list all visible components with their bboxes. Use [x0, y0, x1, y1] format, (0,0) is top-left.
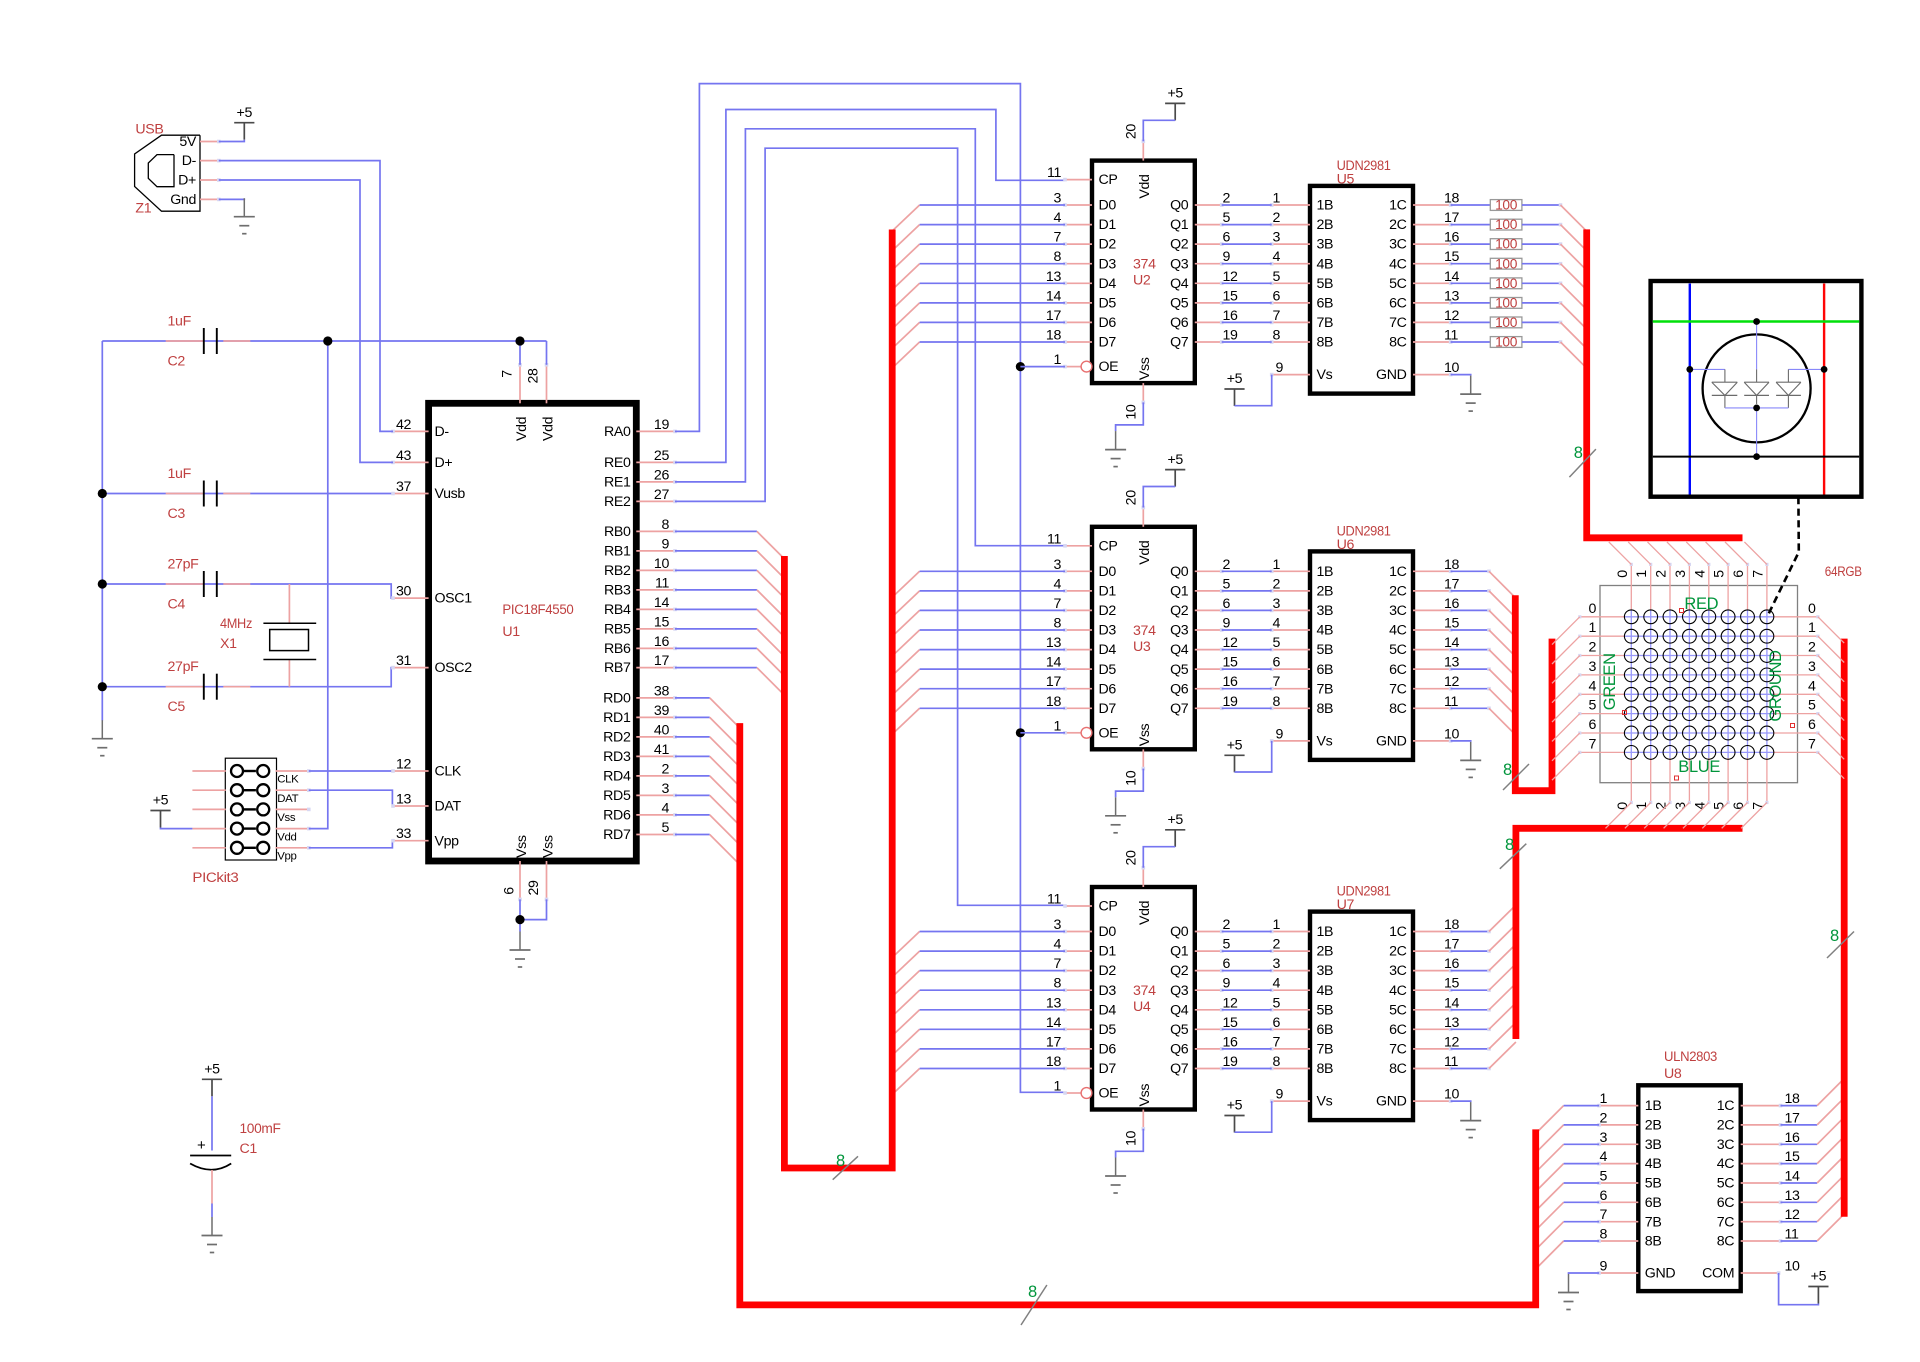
svg-text:12: 12 — [1444, 674, 1460, 690]
svg-text:+5: +5 — [1227, 371, 1243, 387]
junction dot Vss join — [515, 915, 524, 924]
svg-text:7: 7 — [1588, 736, 1596, 752]
svg-text:OE: OE — [1099, 359, 1119, 375]
marker origin RED — [1680, 609, 1684, 613]
svg-text:16: 16 — [1223, 1034, 1239, 1050]
bus RB data 8-bit — [784, 230, 892, 1169]
svg-text:D7: D7 — [1099, 1061, 1117, 1077]
IC U1 PIC18F4550 body — [429, 403, 637, 861]
svg-text:D0: D0 — [1099, 198, 1117, 214]
svg-text:9: 9 — [1223, 249, 1231, 265]
bus blue anodes 8-bit — [1516, 828, 1743, 1039]
ground at U8 GND — [1558, 1274, 1579, 1310]
svg-text:17: 17 — [1046, 1034, 1062, 1050]
wire Q5 to U5 6B — [1222, 302, 1272, 304]
U3 pin 4 D1 — [1053, 576, 1116, 599]
svg-text:6: 6 — [1731, 570, 1747, 578]
svg-text:100: 100 — [1495, 237, 1518, 252]
svg-text:C4: C4 — [168, 597, 186, 613]
matrix row 3 line — [1578, 673, 1819, 676]
wire U8 2C to ground bus — [1781, 1098, 1845, 1125]
svg-text:14: 14 — [1046, 1015, 1062, 1031]
svg-text:7: 7 — [1599, 1207, 1607, 1223]
wire Q1 to U7 2B — [1222, 950, 1272, 952]
wire U8 7C to ground bus — [1781, 1195, 1845, 1222]
svg-text:COM: COM — [1702, 1266, 1734, 1282]
svg-text:8B: 8B — [1317, 335, 1334, 351]
wire R3 to red column bus — [1561, 244, 1587, 270]
U1 pin 37 Vusb — [391, 479, 465, 502]
svg-text:RB7: RB7 — [604, 660, 631, 676]
svg-text:1C: 1C — [1389, 564, 1407, 580]
matrix column 3 line — [1688, 563, 1691, 804]
U7 pin 9 Vs — [1270, 1087, 1333, 1110]
matrix column 2 line — [1668, 563, 1671, 804]
wire +5 to U2 Vdd — [1143, 120, 1175, 141]
U2 pin 1 OE — [1053, 352, 1118, 375]
svg-text:7C: 7C — [1389, 1042, 1407, 1058]
wire matrix column 3 to blue bus — [1664, 803, 1690, 829]
wire RB3 to data bus — [675, 590, 784, 618]
wire U7 6C to blue bus — [1451, 1003, 1516, 1031]
wire row bus to U8 4B — [1536, 1164, 1599, 1192]
svg-text:6C: 6C — [1717, 1195, 1735, 1211]
svg-text:1C: 1C — [1389, 924, 1407, 940]
svg-text:16: 16 — [1444, 230, 1460, 246]
svg-text:5: 5 — [1223, 937, 1231, 953]
wire Q5 to U7 6B — [1222, 1028, 1272, 1030]
svg-text:D-: D- — [435, 424, 450, 440]
U5 pin 6 6B — [1270, 288, 1333, 311]
svg-text:RB4: RB4 — [604, 602, 631, 618]
svg-text:5B: 5B — [1317, 642, 1334, 658]
wire row bus to U8 3B — [1536, 1144, 1599, 1172]
svg-text:D1: D1 — [1099, 584, 1117, 600]
U4 pin 6 Q2 — [1170, 956, 1230, 979]
svg-text:12: 12 — [1223, 635, 1239, 651]
svg-text:100: 100 — [1495, 296, 1518, 311]
svg-text:8B: 8B — [1317, 701, 1334, 717]
USB pin D- — [182, 153, 221, 169]
wire Q0 to U5 1B — [1222, 204, 1272, 206]
wire RD6 to row bus — [675, 815, 740, 845]
U3 pin 5 Q1 — [1170, 576, 1230, 599]
U4 pin 4 D1 — [1053, 937, 1116, 960]
U5 pin 12 7C — [1389, 308, 1459, 331]
matrix LED circles — [1624, 610, 1773, 759]
svg-text:U8: U8 — [1664, 1066, 1682, 1082]
svg-text:PICkit3: PICkit3 — [192, 870, 238, 886]
svg-text:RB3: RB3 — [604, 583, 631, 599]
junction dot C4 row — [98, 579, 107, 588]
svg-text:4: 4 — [1808, 678, 1816, 694]
wire RD3 to row bus — [675, 756, 740, 786]
svg-text:9: 9 — [1223, 616, 1231, 632]
svg-text:+5: +5 — [153, 793, 169, 809]
svg-text:C1: C1 — [240, 1141, 258, 1157]
svg-text:1: 1 — [1053, 718, 1061, 734]
matrix column 0 line — [1630, 563, 1633, 804]
wire row bus to U8 5B — [1536, 1183, 1599, 1211]
callout dashed leader — [1767, 497, 1799, 617]
U1 pin 6 Vss — [502, 835, 530, 901]
svg-text:15: 15 — [1223, 1015, 1239, 1031]
U3 pin 15 Q5 — [1170, 655, 1238, 678]
U4 pin 9 Q3 — [1170, 976, 1230, 999]
inset green anode line — [1653, 320, 1859, 322]
wire +5 to U5 Vs — [1235, 375, 1272, 406]
svg-text:10: 10 — [1785, 1259, 1801, 1275]
PICkit3 pin Vss — [192, 803, 295, 824]
U8 pin 2 2B — [1597, 1110, 1661, 1133]
svg-text:CLK: CLK — [277, 774, 299, 786]
svg-text:Q0: Q0 — [1170, 924, 1189, 940]
svg-text:5: 5 — [661, 820, 669, 836]
svg-text:ULN2803: ULN2803 — [1664, 1049, 1717, 1065]
wire data bus to U4 D3 — [892, 990, 1065, 1016]
svg-text:3C: 3C — [1389, 237, 1407, 253]
inset wire cathodes join — [1725, 408, 1789, 457]
U5 pin 16 3C — [1389, 230, 1459, 253]
inset wire red to right diode — [1788, 369, 1824, 382]
U1 pin 43 D+ — [391, 448, 452, 471]
svg-text:18: 18 — [1046, 328, 1062, 344]
wire U8 1C to ground bus — [1781, 1079, 1845, 1106]
PICkit3 right stub Vpp — [276, 846, 311, 850]
RGB LED detail inset box — [1651, 281, 1862, 497]
svg-text:5C: 5C — [1389, 276, 1407, 292]
U2 pin 11 CP — [1047, 165, 1118, 188]
wire green bus to matrix row 0 — [1552, 617, 1580, 645]
svg-text:15: 15 — [1223, 655, 1239, 671]
svg-text:Vs: Vs — [1317, 367, 1333, 383]
wire row bus to U8 1B — [1536, 1106, 1599, 1134]
svg-text:CP: CP — [1099, 899, 1118, 915]
U1 pin 33 Vpp — [391, 826, 459, 849]
U5 pin 9 Vs — [1270, 360, 1333, 383]
U7 pin 15 4C — [1389, 976, 1459, 999]
wire data bus to U3 D3 — [892, 630, 1065, 656]
U1 pin 9 RB1 — [604, 536, 677, 559]
svg-text:39: 39 — [654, 703, 670, 719]
svg-text:D2: D2 — [1099, 963, 1117, 979]
svg-text:RB5: RB5 — [604, 622, 631, 638]
svg-text:6: 6 — [1272, 1015, 1280, 1031]
wire matrix row 2 to ground bus — [1818, 656, 1844, 682]
U4 pin 13 D4 — [1046, 995, 1116, 1018]
svg-text:Q2: Q2 — [1170, 603, 1189, 619]
svg-text:13: 13 — [1444, 1015, 1460, 1031]
svg-text:Q3: Q3 — [1170, 623, 1189, 639]
U7 pin 17 2C — [1389, 937, 1459, 960]
IC U7 UDN2981 body — [1310, 912, 1413, 1121]
wire U2 OE stub link — [1020, 366, 1065, 368]
U1 pin 31 OSC2 — [391, 653, 472, 676]
U2 pin 17 D6 — [1046, 308, 1116, 331]
svg-text:D5: D5 — [1099, 296, 1117, 312]
svg-text:16: 16 — [1444, 596, 1460, 612]
svg-text:4: 4 — [1588, 678, 1596, 694]
svg-text:8C: 8C — [1389, 335, 1407, 351]
wire green bus to matrix row 3 — [1552, 675, 1580, 703]
svg-text:D0: D0 — [1099, 924, 1117, 940]
svg-text:2: 2 — [661, 761, 669, 777]
svg-text:31: 31 — [396, 653, 412, 669]
wire data bus to U4 D0 — [892, 932, 1065, 958]
bus label 8 row — [1021, 1283, 1047, 1325]
U2 pin 12 Q4 — [1170, 269, 1238, 292]
svg-text:20: 20 — [1123, 850, 1139, 866]
wire RB7 to data bus — [675, 668, 784, 696]
svg-text:3: 3 — [1272, 230, 1280, 246]
U8 pin 10 COM — [1702, 1259, 1800, 1282]
svg-text:17: 17 — [1444, 576, 1460, 592]
bus label 8 red — [1569, 444, 1596, 477]
wire U7 2C to blue bus — [1451, 925, 1516, 953]
svg-text:Vs: Vs — [1317, 1094, 1333, 1110]
svg-text:11: 11 — [1047, 165, 1061, 181]
capacitor C4 plates — [204, 571, 217, 597]
svg-text:OSC1: OSC1 — [435, 591, 473, 607]
svg-text:Q3: Q3 — [1170, 256, 1189, 272]
wire row bus to U8 2B — [1536, 1125, 1599, 1153]
svg-text:RE1: RE1 — [604, 475, 631, 491]
svg-text:14: 14 — [1785, 1169, 1801, 1185]
svg-text:11: 11 — [1785, 1227, 1799, 1243]
svg-text:12: 12 — [1444, 1034, 1460, 1050]
svg-text:Vpp: Vpp — [435, 833, 460, 849]
svg-text:7: 7 — [1053, 230, 1061, 246]
svg-text:2C: 2C — [1389, 217, 1407, 233]
wire R4 to red column bus — [1561, 264, 1587, 290]
U6 pin 11 8C — [1389, 694, 1458, 717]
svg-text:D-: D- — [182, 153, 197, 169]
wire +5 to U4 Vdd — [1143, 847, 1175, 868]
U7 pin 10 GND — [1376, 1087, 1460, 1110]
svg-text:10: 10 — [1444, 360, 1460, 376]
svg-text:1C: 1C — [1717, 1098, 1735, 1114]
wire green bus to matrix row 2 — [1552, 656, 1580, 684]
U3 pin 6 Q2 — [1170, 596, 1230, 619]
svg-text:Q4: Q4 — [1170, 1002, 1189, 1018]
inset wire blue to left diode — [1690, 369, 1725, 382]
svg-text:+5: +5 — [1811, 1269, 1827, 1285]
matrix row 4 line — [1578, 693, 1819, 696]
svg-text:19: 19 — [1223, 1054, 1239, 1070]
marker origin GREEN — [1623, 711, 1627, 715]
matrix column 5 line — [1727, 563, 1730, 804]
svg-text:Vdd: Vdd — [1137, 541, 1153, 565]
ground at USB Gnd — [234, 198, 255, 234]
wire R6 to red column bus — [1561, 303, 1587, 329]
inset diode D-green — [1744, 382, 1769, 404]
capacitor C4 27pF — [166, 583, 251, 585]
svg-text:8: 8 — [1053, 616, 1061, 632]
resistor R6 100 — [1451, 296, 1563, 311]
U1 pin 14 RB4 — [604, 595, 677, 618]
svg-text:BLUE: BLUE — [1678, 758, 1720, 776]
wire RD5 to row bus — [675, 795, 740, 825]
svg-text:2: 2 — [1223, 917, 1231, 933]
matrix column 1 line — [1649, 563, 1652, 804]
ground at U1 Vss — [510, 932, 531, 968]
svg-text:16: 16 — [654, 634, 670, 650]
crystal X1 4MHz — [263, 584, 316, 687]
USB pin D+ — [178, 173, 220, 189]
ground at U3 Vss — [1105, 797, 1126, 833]
U2 pin 10 Vss — [1123, 357, 1153, 419]
capacitor C3 1uF — [166, 493, 251, 495]
svg-text:17: 17 — [1046, 308, 1062, 324]
svg-text:27pF: 27pF — [168, 659, 200, 675]
svg-text:Vss: Vss — [1137, 357, 1153, 380]
U1 pin 19 RA0 — [604, 417, 677, 440]
U3 pin 1 OE — [1053, 718, 1118, 741]
svg-text:6: 6 — [1272, 288, 1280, 304]
svg-text:Vusb: Vusb — [435, 486, 466, 502]
svg-text:5: 5 — [1272, 635, 1280, 651]
svg-text:7: 7 — [1053, 596, 1061, 612]
U5 pin 18 1C — [1389, 191, 1459, 214]
U7 pin 14 5C — [1389, 995, 1459, 1018]
svg-text:3B: 3B — [1645, 1137, 1662, 1153]
svg-text:CP: CP — [1099, 538, 1118, 554]
U1 pin 28 Vdd — [526, 363, 557, 441]
inset blue cathode line — [1689, 284, 1691, 495]
svg-text:6B: 6B — [1317, 1022, 1334, 1038]
svg-text:D4: D4 — [1099, 1002, 1117, 1018]
svg-text:1: 1 — [1634, 570, 1650, 578]
svg-text:U7: U7 — [1337, 897, 1355, 913]
U3 pin 16 Q6 — [1170, 674, 1238, 697]
U5 pin 13 6C — [1389, 288, 1459, 311]
label UDN2981 U7 — [1337, 884, 1391, 914]
svg-text:4: 4 — [1053, 576, 1061, 592]
svg-text:3: 3 — [1053, 917, 1061, 933]
U1 pin 30 OSC1 — [391, 584, 472, 607]
svg-text:Vpp: Vpp — [277, 851, 296, 863]
svg-text:1: 1 — [1272, 557, 1280, 573]
svg-text:4: 4 — [1692, 570, 1708, 578]
U8 pin 8 8B — [1597, 1227, 1661, 1250]
connector PICkit3 — [225, 758, 276, 860]
svg-text:D4: D4 — [1099, 276, 1117, 292]
svg-text:3: 3 — [1599, 1130, 1607, 1146]
svg-text:4C: 4C — [1389, 256, 1407, 272]
inset diode D-blue — [1712, 382, 1738, 408]
U1 pin 39 RD1 — [603, 703, 677, 726]
svg-text:4: 4 — [1053, 937, 1061, 953]
+5 supply at U4 Vdd — [1165, 812, 1185, 847]
svg-text:1: 1 — [1808, 620, 1816, 636]
svg-text:18: 18 — [1444, 917, 1460, 933]
svg-text:6C: 6C — [1389, 1022, 1407, 1038]
svg-text:Q7: Q7 — [1170, 701, 1189, 717]
svg-text:Q1: Q1 — [1170, 584, 1189, 600]
svg-text:3: 3 — [661, 781, 669, 797]
U4 pin 7 D2 — [1053, 956, 1116, 979]
svg-text:2: 2 — [1654, 570, 1670, 578]
svg-text:14: 14 — [1444, 269, 1460, 285]
svg-text:13: 13 — [1046, 269, 1062, 285]
svg-text:D3: D3 — [1099, 983, 1117, 999]
wire R2 to red column bus — [1561, 225, 1587, 251]
LED matrix 64RGB border — [1600, 586, 1798, 783]
svg-text:Vss: Vss — [277, 812, 296, 824]
svg-text:3: 3 — [1272, 956, 1280, 972]
wire data bus to U3 D4 — [892, 650, 1065, 676]
svg-text:8: 8 — [1599, 1227, 1607, 1243]
U1 pin 15 RB5 — [604, 614, 677, 637]
wire Q0 to U7 1B — [1222, 931, 1272, 933]
svg-text:5: 5 — [1272, 995, 1280, 1011]
U2 pin 13 D4 — [1046, 269, 1116, 292]
svg-text:D5: D5 — [1099, 662, 1117, 678]
matrix column 7 line — [1765, 563, 1768, 804]
bus label 8 blue — [1500, 836, 1527, 869]
U6 pin 15 4C — [1389, 616, 1459, 639]
svg-text:16: 16 — [1223, 308, 1239, 324]
wire RE2 to U4 CP — [675, 148, 1065, 905]
U2 pin 9 Q3 — [1170, 249, 1230, 272]
wire Q3 to U5 4B — [1222, 263, 1272, 265]
svg-text:4MHz: 4MHz — [220, 616, 252, 632]
IC U6 UDN2981 body — [1310, 551, 1413, 760]
svg-text:X1: X1 — [220, 636, 237, 652]
wire C3 row to Vusb — [102, 493, 393, 495]
IC U2 374 body — [1092, 161, 1195, 384]
svg-text:Q2: Q2 — [1170, 963, 1189, 979]
wire data bus to U4 D6 — [892, 1049, 1065, 1075]
svg-text:3: 3 — [1808, 659, 1816, 675]
svg-text:OE: OE — [1099, 1086, 1119, 1102]
U1 pin 8 RB0 — [604, 517, 677, 540]
U2 pin 19 Q7 — [1170, 328, 1238, 351]
U4 pin 11 CP — [1047, 892, 1118, 915]
svg-text:2C: 2C — [1717, 1118, 1735, 1134]
svg-text:17: 17 — [1785, 1110, 1801, 1126]
wire U6 5C to green bus — [1451, 648, 1516, 676]
svg-text:Vdd: Vdd — [277, 831, 296, 843]
wire U8 8C to ground bus — [1781, 1214, 1845, 1241]
wire R7 to red column bus — [1561, 322, 1587, 348]
wire matrix column 6 to blue bus — [1722, 803, 1748, 829]
wire matrix row 1 to ground bus — [1818, 636, 1844, 662]
svg-text:1uF: 1uF — [168, 314, 192, 330]
wire data bus to U3 D2 — [892, 610, 1065, 636]
svg-text:14: 14 — [1444, 995, 1460, 1011]
wire RB2 to data bus — [675, 570, 784, 598]
U6 pin 8 8B — [1270, 694, 1333, 717]
svg-text:2: 2 — [1272, 210, 1280, 226]
svg-text:12: 12 — [1223, 995, 1239, 1011]
svg-text:8: 8 — [1272, 694, 1280, 710]
wire U6 7C to green bus — [1451, 687, 1516, 715]
U3 pin 3 D0 — [1053, 557, 1116, 580]
svg-text:64RGB: 64RGB — [1825, 564, 1862, 580]
svg-text:D6: D6 — [1099, 1042, 1117, 1058]
svg-text:9: 9 — [1599, 1259, 1607, 1275]
svg-text:Q6: Q6 — [1170, 1042, 1189, 1058]
capacitor C2 plates — [204, 328, 217, 354]
U6 pin 3 3B — [1270, 596, 1333, 619]
wire C5 row to OSC2 — [102, 668, 393, 687]
PICkit3 right stub DAT — [276, 788, 311, 792]
svg-text:100: 100 — [1495, 198, 1518, 213]
inset junction dots — [1686, 318, 1827, 460]
svg-text:RB6: RB6 — [604, 641, 631, 657]
wire R5 to red column bus — [1561, 283, 1587, 309]
